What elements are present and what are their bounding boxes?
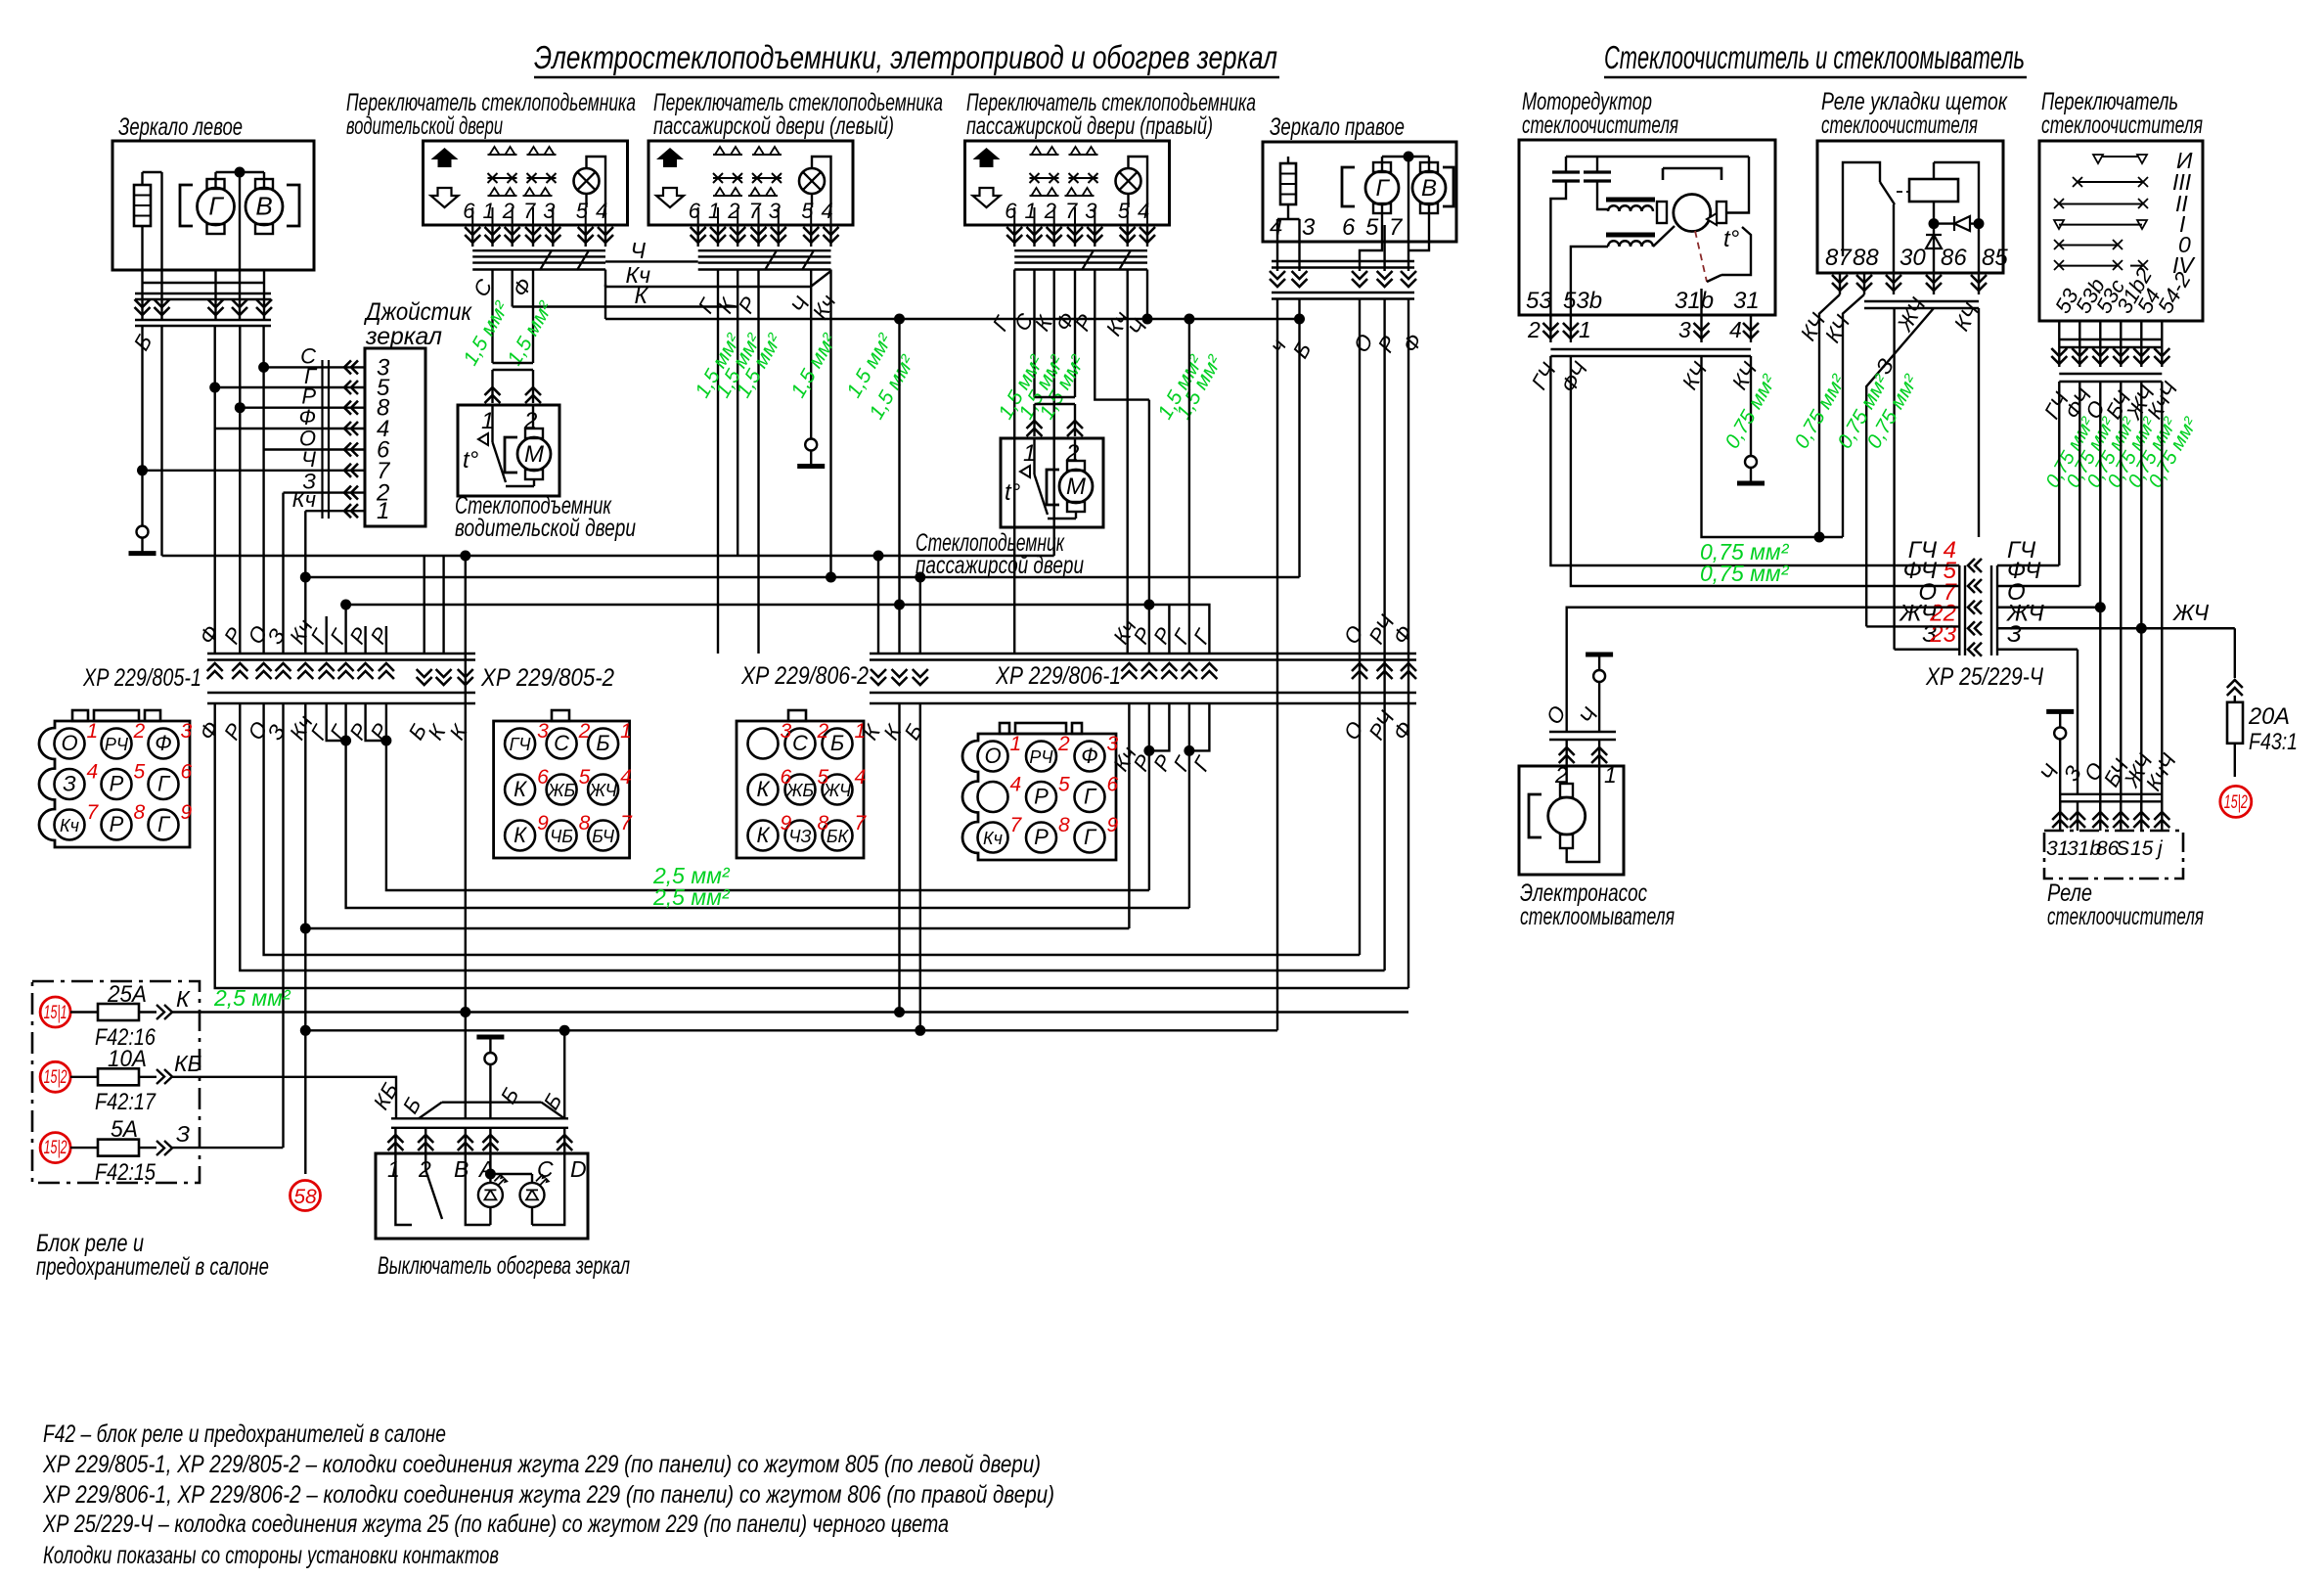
- jog to band col Р2: [1149, 605, 1170, 654]
- wire 806-2 К column up: [898, 319, 900, 654]
- svg-text:D: D: [570, 1156, 587, 1182]
- switch3 harness lines: [1014, 249, 1147, 251]
- svg-text:В: В: [1421, 175, 1437, 202]
- svg-text:ЖЧ: ЖЧ: [588, 781, 617, 800]
- svg-text:0,75 мм²: 0,75 мм²: [1700, 561, 1790, 586]
- wire З row to relay: [2077, 650, 2078, 794]
- svg-text:8: 8: [1058, 814, 1070, 836]
- motor1 M: [505, 437, 517, 473]
- svg-text:стеклоочистителя: стеклоочистителя: [1821, 112, 1978, 139]
- row lines left stubs: [1895, 607, 1960, 609]
- svg-text:6: 6: [463, 199, 475, 223]
- svg-text:2: 2: [578, 720, 591, 743]
- node А: [485, 1169, 496, 1180]
- wire Р switch3: [1095, 270, 1149, 400]
- svg-text:Колодки показаны со стороны: Колодки показаны со стороны установки ко…: [43, 1542, 499, 1569]
- svg-text:3: 3: [769, 199, 782, 223]
- diode horizontal: [1954, 216, 1970, 231]
- svg-text:М: М: [524, 441, 544, 468]
- harness pair: [135, 293, 271, 294]
- joystick pin 1 wire Кч: [344, 504, 358, 518]
- svg-text:стеклоомывателя: стеклоомывателя: [1520, 903, 1675, 930]
- svg-text:7: 7: [523, 199, 536, 223]
- svg-text:М: М: [1066, 474, 1086, 500]
- coil to motor link: [1647, 210, 1653, 212]
- svg-text:1: 1: [377, 498, 389, 524]
- svg-text:1: 1: [387, 1156, 400, 1182]
- switch1 harness lines: [472, 249, 605, 251]
- svg-text:С: С: [792, 731, 808, 755]
- joystick block: [365, 348, 425, 526]
- connector chevrons below left mirror: [135, 299, 151, 315]
- svg-text:6: 6: [1005, 199, 1017, 223]
- svg-text:9: 9: [181, 801, 193, 824]
- capacitor bracket left of motor Г: [180, 185, 193, 226]
- wire Р down from switch2: [757, 270, 759, 654]
- svg-text:БЧ: БЧ: [592, 827, 615, 846]
- circuit 58 wire: [300, 1025, 311, 1036]
- wire ФЧ to connector row: [1571, 356, 1895, 586]
- svg-text:водительской двери: водительской двери: [346, 113, 503, 140]
- svg-text:С: С: [554, 731, 569, 755]
- svg-text:ГЧ: ГЧ: [510, 735, 532, 754]
- svg-text:2: 2: [133, 720, 146, 743]
- wire Кч row: [305, 510, 365, 512]
- sensor switch contact: [1707, 275, 1721, 282]
- wires below left mirror: [141, 270, 143, 319]
- svg-text:53: 53: [1526, 288, 1552, 314]
- svg-text:Электростеклоподъемники, элет: Электростеклоподъемники, элетропривод и …: [534, 39, 1277, 75]
- svg-text:6: 6: [181, 761, 193, 784]
- wire Б down: [141, 326, 143, 525]
- wiper motor harness ties: [1550, 348, 1751, 350]
- wire ЖЧ 86 slant: [1866, 308, 1934, 626]
- svg-text:1: 1: [1579, 317, 1591, 342]
- wires above band 805-2: [424, 556, 425, 654]
- joystick gather pair: [321, 360, 323, 519]
- node Б: [1294, 314, 1305, 325]
- svg-text:3: 3: [181, 720, 193, 743]
- svg-text:F43:1: F43:1: [2249, 729, 2298, 755]
- wire 806-2 Б column down to 58 bus: [919, 703, 921, 1030]
- dashed sensor link: [1695, 231, 1707, 282]
- joystick pin 5 wire Г: [344, 381, 358, 394]
- wire Ч switch2 to ground: [810, 270, 812, 439]
- svg-text:2: 2: [1057, 733, 1070, 755]
- svg-text:Г: Г: [157, 772, 171, 796]
- svg-text:ХР 229/806-1: ХР 229/806-1: [995, 662, 1121, 690]
- svg-text:зеркал: зеркал: [365, 323, 442, 350]
- svg-text:5: 5: [1058, 774, 1070, 796]
- chevrons below right mirror: [1270, 271, 1285, 287]
- svg-text:Р: Р: [1034, 785, 1049, 809]
- switch3 lamp wire: [1129, 157, 1148, 207]
- motor Г right mirror: [1373, 162, 1391, 172]
- fuse and relay block (dash-dot box): [32, 981, 200, 1183]
- wire Р right mirror down: [1383, 299, 1385, 971]
- relay coil bottom wire: [1933, 202, 1935, 273]
- svg-text:t°: t°: [1005, 479, 1021, 506]
- connector plug ХР 229/805-2 (9-pin): [494, 721, 630, 858]
- svg-text:6: 6: [537, 766, 549, 789]
- svg-text:t°: t°: [463, 447, 479, 474]
- wire top link left: [143, 171, 162, 173]
- wires below band columns 805-1 descend: [282, 703, 284, 724]
- svg-text:предохранителей в салоне: предохранителей в салоне: [36, 1253, 269, 1281]
- svg-text:4: 4: [855, 766, 867, 789]
- wire Ф right mirror down: [1408, 299, 1409, 989]
- svg-text:Кч: Кч: [983, 829, 1003, 848]
- joystick pin 3 wire С: [344, 360, 358, 374]
- bus К horizontal y568: [162, 555, 1054, 557]
- wire А to C LED: [490, 1173, 532, 1175]
- wire Кч from switch1: [604, 270, 606, 288]
- svg-text:8: 8: [579, 812, 591, 835]
- svg-text:1: 1: [855, 720, 867, 743]
- svg-text:ЖЧ: ЖЧ: [2172, 600, 2210, 625]
- svg-text:стеклоочистителя: стеклоочистителя: [2041, 112, 2203, 139]
- bus Г horizontal y618: [346, 604, 1189, 606]
- svg-text:15: 15: [2130, 837, 2154, 860]
- svg-text:З: З: [176, 1121, 190, 1147]
- svg-text:7: 7: [620, 812, 633, 835]
- wire К down from switch2: [737, 270, 738, 557]
- svg-text:К: К: [757, 777, 771, 801]
- inductor 2: [1606, 233, 1655, 238]
- window lifter motor1 box: Стеклоподъемник водительской двери: [458, 405, 559, 496]
- wire Р row: [240, 407, 365, 409]
- wire Ч switch3: [1146, 270, 1148, 320]
- switch1 lamp wire: [585, 194, 587, 207]
- jog to band col Г2: [1189, 605, 1210, 654]
- wire: [239, 172, 241, 270]
- staircase wire О: [264, 703, 1360, 955]
- wire К col 805-2 long vertical: [465, 556, 467, 1118]
- heater switch contact: [425, 1170, 442, 1219]
- svg-text:9: 9: [537, 812, 549, 835]
- svg-text:ХР 229/805-1, ХР 229/805-2 –: ХР 229/805-1, ХР 229/805-2 – колодки сое…: [42, 1451, 1041, 1478]
- node: [1974, 218, 1985, 229]
- motor1 inner bottom wire: [506, 485, 534, 487]
- armature top bracket: [1663, 168, 1721, 180]
- wiper relay box (dash-dot): Реле стеклоочистителя: [2044, 831, 2183, 879]
- wire 806-2 Б column up: [919, 577, 921, 654]
- svg-text:Г: Г: [1084, 825, 1097, 849]
- svg-text:Г: Г: [208, 192, 224, 221]
- svg-text:1: 1: [620, 720, 632, 743]
- svg-text:Б: Б: [596, 731, 609, 755]
- svg-text:Г: Г: [157, 812, 171, 836]
- ground under wiper motor: [1745, 456, 1757, 468]
- motor В right mirror: [1420, 162, 1438, 172]
- switch2 harness lines: [698, 249, 831, 251]
- LED indicators: [478, 1183, 503, 1207]
- svg-text:88: 88: [1853, 245, 1879, 271]
- svg-text:3: 3: [1678, 317, 1691, 342]
- svg-text:К: К: [176, 986, 191, 1012]
- capacitor bracket right of motor В: [287, 185, 299, 226]
- svg-text:3: 3: [781, 720, 792, 743]
- bracket left: [1342, 167, 1355, 206]
- staircase wire Р to 806-1: [386, 741, 1149, 890]
- staircase wire Ф 805-1 to right mirror: [215, 703, 1408, 988]
- harness line: [143, 282, 265, 284]
- wires below right mirror: [1381, 205, 1383, 242]
- relay harness ties: [1864, 300, 1979, 302]
- svg-text:Р: Р: [1034, 825, 1049, 849]
- inductor 1: [1606, 198, 1655, 203]
- connector plug ХР 229/806-1 (9-pin): [962, 734, 1116, 860]
- svg-text:Джойстик: Джойстик: [363, 298, 472, 326]
- circuit tag 58: [290, 1181, 321, 1211]
- svg-text:К: К: [757, 823, 771, 847]
- svg-text:4: 4: [1010, 774, 1022, 796]
- circuit tag 15|1: [40, 997, 70, 1027]
- wires above band 805-1 area: [282, 493, 284, 654]
- svg-text:Г: Г: [1375, 175, 1390, 202]
- wire К switch3: [1052, 270, 1054, 557]
- band 806-2: [870, 653, 1416, 654]
- joystick pin 6 wire О: [344, 443, 358, 457]
- washer pump ground: [1593, 670, 1605, 682]
- washer pump harness ties: [1549, 731, 1616, 733]
- wire Ф row: [215, 428, 365, 429]
- relay switch contact: [1880, 182, 1895, 204]
- right mirror resistor: [1280, 163, 1296, 204]
- svg-text:РЧ: РЧ: [1029, 747, 1053, 767]
- svg-text:9: 9: [1107, 814, 1119, 836]
- ground (left mirror): [137, 526, 149, 538]
- svg-text:F42 – блок реле и предохр: F42 – блок реле и предохранителей в сало…: [43, 1421, 446, 1448]
- relay contact dashed link: [1897, 191, 1909, 193]
- wire О row to washer pump: [1567, 608, 1895, 732]
- wiper switch harness ties: [2059, 338, 2162, 340]
- wiper switch wires down: [2058, 382, 2060, 565]
- right mirror harness lines: [1272, 260, 1414, 262]
- svg-text:53b: 53b: [1563, 288, 1602, 314]
- wire D of heater switch up to 58 bus: [563, 1030, 565, 1118]
- wire З row: [284, 491, 366, 493]
- window motor2 ties: [1035, 396, 1076, 398]
- svg-text:Выключатель обогрева зеркал: Выключатель обогрева зеркал: [378, 1252, 630, 1280]
- svg-text:ХР 229/806-2: ХР 229/806-2: [740, 662, 869, 690]
- relay inner wires: [1840, 157, 1864, 273]
- wire Г switch3: [1013, 270, 1015, 654]
- svg-text:К: К: [634, 283, 648, 308]
- staircase wire Р: [240, 703, 1384, 970]
- svg-text:ХР 229/805-2: ХР 229/805-2: [480, 664, 614, 692]
- svg-text:РЧ: РЧ: [105, 735, 129, 754]
- capacitor 2: [1584, 170, 1611, 173]
- bus Кч horizontal y590: [305, 576, 1299, 578]
- svg-text:Стеклоочиститель и стеклоомы: Стеклоочиститель и стеклоомыватель: [1604, 39, 2025, 75]
- heater switch inner pins: [394, 1153, 396, 1164]
- svg-text:3: 3: [1302, 214, 1316, 241]
- chevrons into motor1: [485, 387, 501, 403]
- svg-text:ЖБ: ЖБ: [547, 781, 576, 800]
- wire resistor lead: [141, 172, 143, 185]
- switch2 lamp wire: [812, 157, 831, 207]
- svg-text:КБ: КБ: [174, 1051, 202, 1076]
- svg-text:Зеркало правое: Зеркало правое: [1270, 113, 1405, 141]
- wire Б link to switches lamps: [605, 318, 1300, 320]
- wire Ч row: [143, 470, 366, 472]
- svg-text:87: 87: [1825, 245, 1853, 271]
- motor В (left mirror vertical drive): [255, 179, 273, 189]
- wire Ф switch3 to motor2: [1074, 270, 1076, 398]
- link top: [1382, 156, 1429, 158]
- svg-text:15|2: 15|2: [2224, 792, 2248, 813]
- svg-text:86: 86: [1941, 245, 1967, 271]
- ground above heater switch: [484, 1053, 496, 1064]
- svg-text:6: 6: [1342, 214, 1356, 241]
- wire С row: [264, 366, 365, 368]
- wiper switch chevrons: [2051, 348, 2067, 364]
- wire КЧ 31 to ground: [1750, 356, 1752, 456]
- wire Б right mirror down: [1298, 299, 1300, 578]
- motor right link: [1726, 157, 1749, 213]
- bracket right: [1443, 167, 1453, 206]
- jog Р column: [366, 703, 386, 741]
- fuse 10A F42:17: [70, 1076, 98, 1078]
- svg-text:31: 31: [2046, 837, 2069, 860]
- washer pump box: Электронасос стеклоомывателя: [1519, 766, 1624, 875]
- fuse 20A F43:1: [2227, 702, 2243, 744]
- heater switch box: Выключатель обогрева зеркал: [376, 1153, 588, 1239]
- svg-text:В: В: [454, 1156, 469, 1182]
- right mirror box: [1263, 142, 1456, 242]
- joystick pin 7 wire Ч: [344, 464, 358, 477]
- fuse 20A chevron: [2227, 680, 2243, 696]
- svg-text:15|2: 15|2: [44, 1138, 67, 1158]
- wire ЖЧ to fuse 20A: [2234, 628, 2236, 678]
- svg-text:В: В: [255, 192, 272, 221]
- svg-text:ХР 229/805-1: ХР 229/805-1: [82, 664, 201, 692]
- washer pump motor: [1565, 766, 1567, 784]
- wiper relay harness ties: [2060, 793, 2162, 795]
- svg-text:31: 31: [1733, 288, 1760, 314]
- wire О right mirror down: [1359, 299, 1361, 956]
- svg-text:F42:17: F42:17: [95, 1089, 156, 1115]
- svg-text:2: 2: [817, 720, 829, 743]
- svg-text:23: 23: [1929, 621, 1956, 648]
- wire О row: [264, 448, 365, 450]
- svg-text:Р: Р: [110, 772, 124, 796]
- band 806-1: [1121, 663, 1137, 679]
- staircase wire Г to 806-1: [346, 741, 1189, 908]
- svg-text:Б: Б: [830, 731, 844, 755]
- svg-text:8: 8: [818, 812, 829, 835]
- wire К vertical below switch1 region: [877, 556, 879, 654]
- wire КЧ 88 slant: [1843, 294, 1864, 537]
- diode to ground (vertical): [1926, 235, 1942, 248]
- wire КЧ 31b link to relay 87: [1702, 356, 1844, 537]
- svg-text:1: 1: [1604, 762, 1617, 788]
- svg-text:2: 2: [1527, 317, 1541, 342]
- wire С down to window motor 1: [491, 270, 493, 364]
- node junction: [235, 167, 246, 178]
- svg-text:7: 7: [1389, 214, 1404, 241]
- joystick pin 2 wire З: [344, 486, 358, 500]
- svg-text:стеклоочистителя: стеклоочистителя: [2047, 903, 2204, 930]
- svg-text:9: 9: [781, 812, 792, 835]
- svg-text:15|1: 15|1: [44, 1003, 67, 1023]
- left mirror box: [112, 141, 314, 270]
- inner wire left: [1550, 192, 1566, 315]
- wire С switch3 to motor2: [1033, 270, 1035, 398]
- svg-text:водительской двери: водительской двери: [455, 515, 636, 542]
- wire КЧ 85: [1978, 308, 1980, 333]
- svg-text:6: 6: [689, 199, 701, 223]
- svg-text:Ч: Ч: [301, 447, 316, 472]
- wire В of heater switch up to К bus: [465, 1013, 467, 1119]
- joystick pin 8 wire Р: [344, 401, 358, 415]
- svg-text:З: З: [2007, 621, 2022, 648]
- svg-text:7: 7: [1010, 814, 1023, 836]
- band 805-2: [417, 669, 432, 685]
- connector plug ХР 229/806-2 (9-pin): [737, 721, 864, 858]
- svg-text:К: К: [514, 823, 527, 847]
- svg-text:5: 5: [1365, 214, 1379, 241]
- svg-text:4: 4: [620, 766, 632, 789]
- svg-text:Кч: Кч: [292, 487, 316, 512]
- wire: [160, 172, 162, 270]
- brush park relay box: Реле укладки щеток стеклоочистителя: [1817, 141, 2003, 273]
- wire link: [1277, 218, 1300, 220]
- wiper motor armature: [1657, 202, 1667, 223]
- wire top link Г-В: [216, 171, 265, 173]
- heater switch harness trapezoid: [442, 1101, 542, 1103]
- svg-text:7: 7: [749, 199, 762, 223]
- svg-text:20A: 20A: [2248, 703, 2290, 730]
- svg-text:15|2: 15|2: [44, 1067, 67, 1088]
- wire З relay segment: [2077, 650, 2078, 812]
- svg-text:О: О: [61, 731, 77, 755]
- jog Г column: [327, 703, 346, 741]
- svg-text:6: 6: [1107, 774, 1119, 796]
- wire Г down from switch2: [717, 270, 719, 654]
- svg-text:ЧБ: ЧБ: [550, 827, 573, 846]
- svg-text:t°: t°: [1723, 226, 1740, 252]
- svg-text:Ч: Ч: [631, 238, 647, 263]
- circuit tag 15|2 right: [2220, 786, 2252, 817]
- staircase wire З fuse link: [282, 724, 284, 1148]
- row lines right side: [1997, 564, 2059, 566]
- svg-text:ЧЗ: ЧЗ: [788, 827, 811, 846]
- wire ЖЧ row to fuse 20A: [2141, 627, 2235, 629]
- fuse 25A F42:16: [70, 1011, 98, 1013]
- svg-text:7: 7: [1065, 199, 1078, 223]
- heater switch pins chevrons: [394, 1128, 396, 1153]
- svg-text:8: 8: [134, 801, 146, 824]
- svg-text:5: 5: [134, 761, 146, 784]
- harness pair: [135, 319, 271, 321]
- bus 58 horizontal y1053: [305, 1029, 1277, 1031]
- harness pair 2: [1272, 292, 1414, 293]
- svg-text:2,5 мм²: 2,5 мм²: [213, 985, 291, 1011]
- svg-text:ХР 229/806-1, ХР 229/806-2 –: ХР 229/806-1, ХР 229/806-2 – колодки сое…: [42, 1481, 1054, 1509]
- washer pump chevrons: [1565, 740, 1567, 766]
- svg-text:4: 4: [1729, 317, 1742, 342]
- wire З 30 down: [1893, 308, 1895, 650]
- svg-text:З: З: [63, 772, 76, 796]
- svg-text:31b: 31b: [1675, 288, 1714, 314]
- svg-text:стеклоочистителя: стеклоочистителя: [1522, 112, 1678, 139]
- svg-text:Ф: Ф: [155, 731, 172, 755]
- wire Ч right mirror down to bus: [1276, 299, 1278, 1031]
- svg-text:пассажирской двери (правый): пассажирской двери (правый): [966, 113, 1213, 140]
- svg-text:пассажирской двери (левый): пассажирской двери (левый): [653, 113, 894, 140]
